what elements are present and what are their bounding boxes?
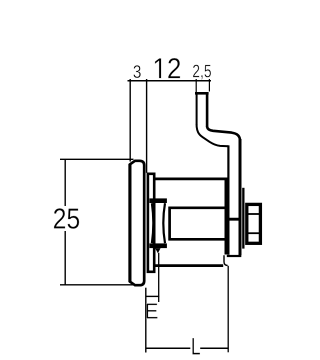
dimension line E (146, 295, 159, 297)
notch at body bottom rear (224, 255, 228, 265)
washer (242, 188, 244, 249)
cam lever jog right outline (207, 127, 240, 141)
cam lever jog left outline (197, 125, 229, 147)
extension line cam top right (tick 2,5 right) (208, 79, 210, 92)
extension line cam top left (tick 12 right / 2,5 left) (195, 79, 197, 93)
nut facet line upper (248, 213, 260, 215)
body top line (155, 177, 229, 180)
extension line 25 bottom (60, 284, 135, 286)
label 3 (133, 65, 140, 78)
dimension line L (146, 347, 229, 349)
label 2,5 (193, 65, 211, 80)
extension line from flange bottom (145, 288, 147, 353)
extension line 25 top (60, 158, 134, 160)
extension line flange front (tick 3 left) (129, 79, 131, 162)
dimension line 25 vertical (64, 159, 66, 284)
extension line from clip center (158, 253, 160, 302)
plug (inner cylinder) (168, 207, 225, 240)
nut (247, 204, 261, 243)
label E (146, 304, 157, 319)
label L (192, 338, 200, 355)
label 25 (54, 208, 79, 229)
extension line from body rear (227, 266, 229, 353)
collar between flange and body (148, 174, 154, 272)
cam lever left wall lower (227, 145, 229, 254)
flange (lock head, side view) (130, 161, 144, 285)
cam lever bottom edge (227, 255, 242, 257)
body rear edge (225, 179, 228, 255)
body bottom line (155, 264, 223, 267)
label 12 (155, 58, 180, 78)
retaining clip (spool shape) (149, 198, 167, 253)
dimension line top (3 / 12 / 2,5) (128, 80, 212, 82)
cam lever top tube (195, 93, 209, 127)
nut facet line lower (248, 232, 260, 234)
spigot line through cam hole (227, 218, 241, 221)
cam lever right wall lower (239, 139, 242, 255)
extension line flange back (tick 3 right / 12 left) (146, 79, 148, 173)
